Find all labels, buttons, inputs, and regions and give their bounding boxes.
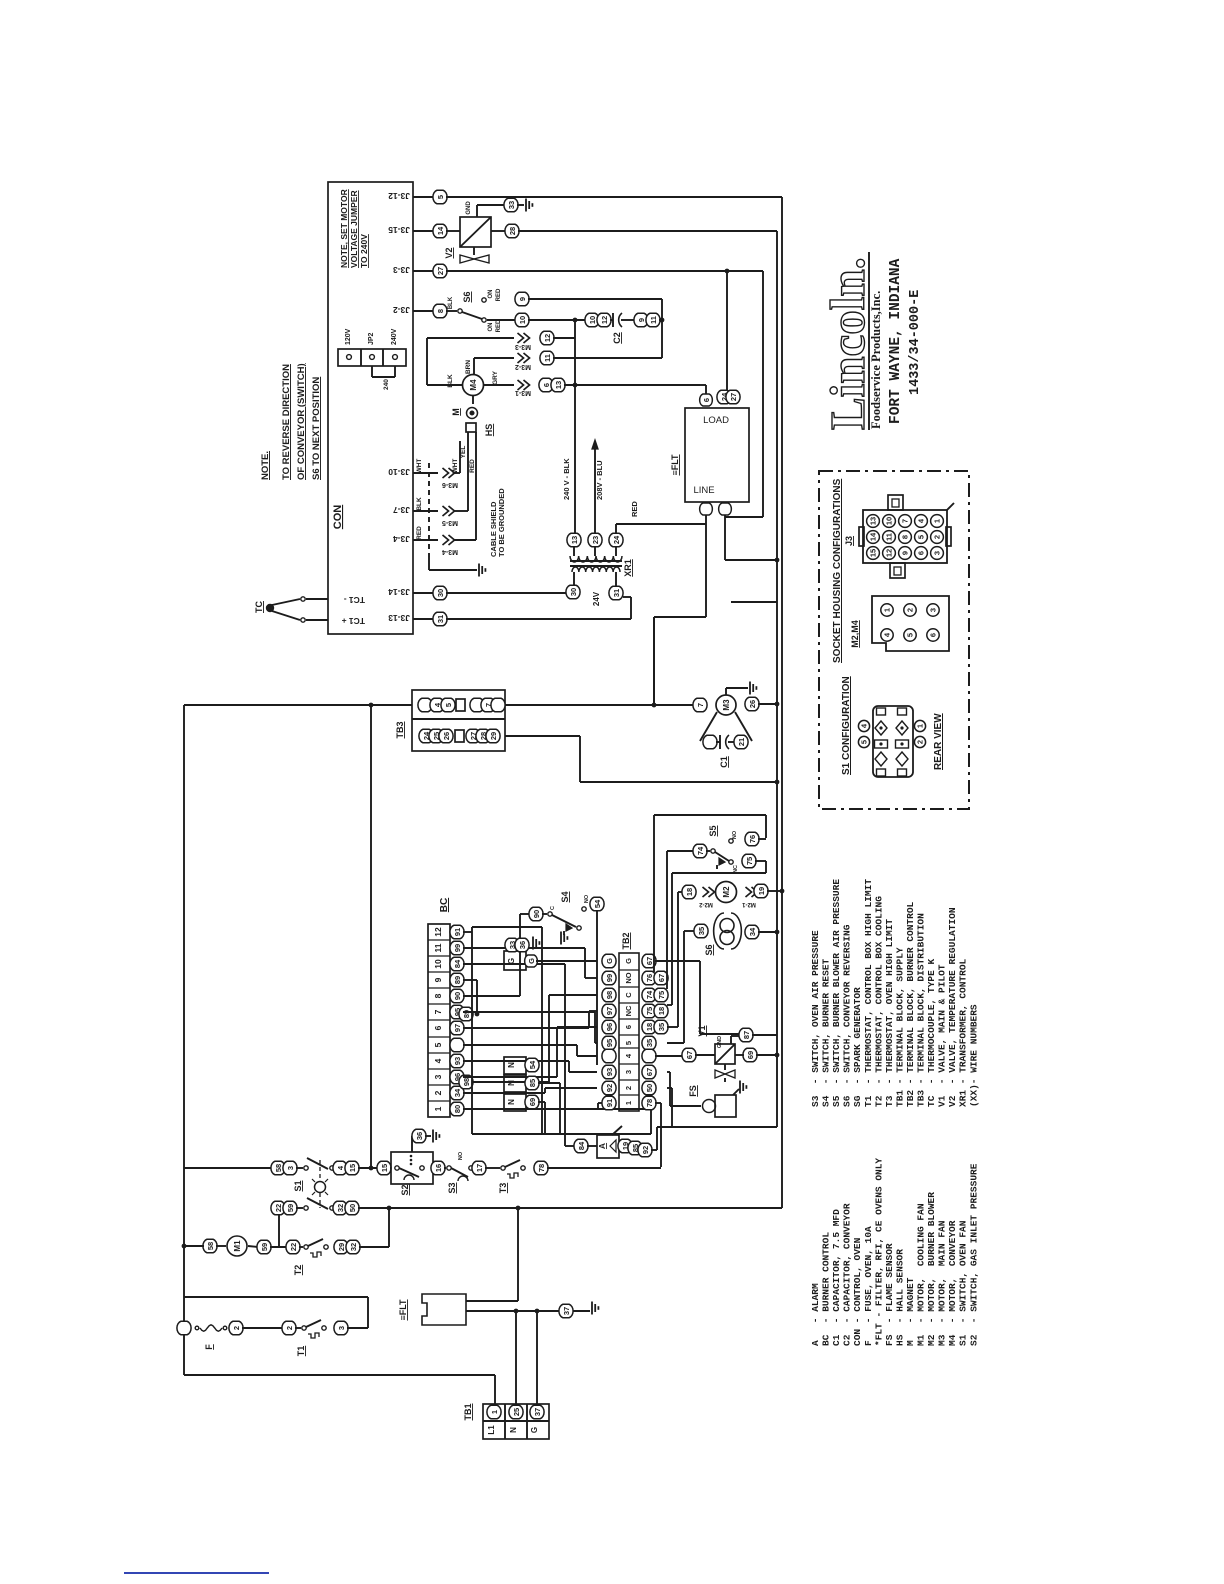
svg-text:RED: RED (496, 288, 502, 301)
svg-text:OF CONVEYOR (SWITCH): OF CONVEYOR (SWITCH) (296, 363, 307, 480)
svg-text:S1: S1 (293, 1180, 303, 1191)
wire RED from CON J3-4 / connector M3-4 (413, 539, 438, 541)
thermostat T2 (control box cooling) (286, 1240, 300, 1254)
svg-text:S3 - SWITCH, OVEN AIR PRESSUR: S3 - SWITCH, OVEN AIR PRESSURE (810, 930, 821, 1107)
svg-text:67: 67 (685, 1051, 694, 1059)
svg-text:NO: NO (624, 972, 633, 983)
svg-text:T3: T3 (498, 1183, 508, 1194)
FLT LOAD pins 6 24 27 (700, 394, 713, 406)
svg-text:12: 12 (543, 334, 552, 342)
wire 59 riser (278, 1214, 280, 1247)
svg-text:M3-1: M3-1 (515, 389, 531, 396)
wire stub to border (731, 601, 777, 603)
svg-text:M2 - MOTOR, BURNER BLOWER: M2 - MOTOR, BURNER BLOWER (926, 1192, 937, 1346)
junction nodes pole-2 rail (387, 1206, 392, 1211)
svg-text:31: 31 (612, 589, 621, 597)
motor M1 (cooling fan) with wire 58 (203, 1239, 217, 1253)
svg-text:Lincoln.: Lincoln. (820, 257, 875, 430)
svg-text:T1 - THERMOSTAT, CONTROL BOX: T1 - THERMOSTAT, CONTROL BOX HIGH LIMIT (863, 879, 874, 1107)
alarm wires 19 85 92 (618, 1139, 632, 1153)
RFI line filter FLT (685, 408, 749, 502)
svg-text:14: 14 (869, 532, 878, 541)
svg-text:11: 11 (885, 533, 894, 541)
wire 2 (229, 1321, 243, 1335)
svg-text:6: 6 (624, 1025, 633, 1029)
junction node M3 feed (653, 617, 655, 705)
wire number 89, junction (459, 1007, 473, 1021)
svg-text:5: 5 (433, 1042, 443, 1047)
motor M2 (burner blower) with connectors M2-2 M2-1 (682, 885, 696, 899)
svg-text:NO: NO (584, 894, 590, 903)
wire bottom rail to TB1 L1 (183, 1334, 185, 1375)
svg-text:N: N (509, 1427, 518, 1433)
svg-text:M - MAGNET: M - MAGNET (905, 1277, 916, 1346)
wire 87 TB2-G to V1 (655, 960, 700, 962)
svg-text:≡FLT: ≡FLT (670, 454, 680, 476)
svg-text:3: 3 (933, 551, 942, 555)
svg-text:18: 18 (645, 1023, 654, 1031)
svg-text:TO REVERSE DIRECTION: TO REVERSE DIRECTION (281, 364, 292, 480)
wire numbers 9 11 (634, 313, 648, 327)
svg-text:N: N (507, 1099, 516, 1105)
svg-text:12: 12 (885, 549, 894, 557)
spark generator G box (504, 951, 526, 970)
svg-text:69: 69 (746, 1051, 755, 1059)
wire FLT LINE to border, junction (724, 515, 726, 560)
wire 76 TB2-NO to S5 (653, 815, 655, 972)
wire 22-59 S1 pole 2 (271, 1207, 273, 1209)
svg-text:10: 10 (518, 316, 527, 324)
wire 240V-BLK riser (574, 385, 576, 534)
svg-text:75: 75 (657, 991, 666, 999)
svg-text:30: 30 (436, 589, 445, 597)
svg-text:22: 22 (274, 1204, 283, 1212)
svg-text:90: 90 (453, 992, 462, 1000)
svg-text:24: 24 (612, 535, 621, 544)
wire 34 to border, junction (745, 925, 759, 939)
cable shield dashed wire and ground (428, 463, 430, 557)
svg-text:XR1 - TRANSFORMER, CONTROL: XR1 - TRANSFORMER, CONTROL (958, 958, 969, 1107)
svg-text:29: 29 (489, 732, 498, 740)
jumper block JP2 (120V/240V) (338, 349, 406, 366)
junction node wire 13 (573, 383, 578, 388)
svg-text:S6: S6 (462, 291, 472, 302)
svg-text:24V: 24V (592, 591, 601, 606)
wire 9 (515, 292, 529, 306)
svg-text:80: 80 (453, 1105, 462, 1113)
svg-text:76: 76 (748, 835, 757, 843)
svg-text:3: 3 (286, 1166, 295, 1170)
junction nodes N and G (514, 1309, 519, 1314)
svg-text:6: 6 (433, 1025, 443, 1030)
sensor wires WHT YEL RED (459, 441, 461, 473)
svg-text:S5 - SWITCH, BURNER BLOWER AI: S5 - SWITCH, BURNER BLOWER AIR PRESSURE (831, 879, 842, 1107)
svg-text:S1 CONFIGURATION: S1 CONFIGURATION (841, 676, 852, 775)
svg-text:58: 58 (274, 1164, 283, 1172)
svg-text:M2-1: M2-1 (742, 901, 756, 907)
svg-text:M1: M1 (233, 1240, 242, 1252)
svg-text:C1 - CAPACITOR, 7.5 MFD: C1 - CAPACITOR, 7.5 MFD (831, 1209, 842, 1346)
svg-text:TB1: TB1 (463, 1403, 473, 1420)
svg-text:75: 75 (745, 857, 754, 865)
svg-text:37: 37 (562, 1307, 571, 1315)
svg-text:2: 2 (933, 535, 942, 539)
wire 50 rail to border (358, 1207, 518, 1209)
svg-text:34: 34 (748, 927, 757, 936)
svg-text:T1: T1 (296, 1346, 306, 1357)
svg-text:97: 97 (453, 1024, 462, 1032)
svg-text:6: 6 (917, 551, 926, 555)
wire 19 to border, junction (754, 884, 768, 898)
svg-text:LOAD: LOAD (703, 415, 729, 426)
svg-text:C: C (624, 992, 633, 998)
wire FLT to pole-2 rail (466, 1300, 518, 1302)
wire 36 with ground (412, 1129, 426, 1143)
svg-text:S2: S2 (400, 1184, 410, 1195)
svg-text:21: 21 (737, 738, 746, 746)
svg-text:J3-12: J3-12 (388, 191, 410, 201)
svg-text:RED: RED (469, 459, 476, 473)
svg-text:67: 67 (657, 974, 666, 982)
svg-text:J3-14: J3-14 (388, 587, 410, 597)
svg-text:15: 15 (869, 549, 878, 557)
wire 74 TB2-C to S5 (666, 851, 668, 989)
junction node left rail (182, 1244, 187, 1249)
svg-text:59: 59 (286, 1204, 295, 1212)
transformer XR1 (control) (570, 556, 622, 562)
wire 24 RED to FLT LINE (615, 524, 617, 534)
wire 3 (334, 1321, 348, 1335)
magnet M (472, 395, 474, 404)
svg-text:C1: C1 (719, 756, 729, 768)
svg-text:S4 - SWITCH, BURNER RESET: S4 - SWITCH, BURNER RESET (821, 958, 832, 1107)
svg-text:WHT: WHT (416, 459, 423, 474)
wire 92 to border (657, 1126, 777, 1128)
svg-text:N: N (507, 1062, 516, 1068)
svg-text:C: C (550, 906, 556, 910)
svg-text:S4: S4 (560, 891, 570, 902)
wire BLK to M4 (426, 338, 428, 385)
svg-text:S6: S6 (704, 944, 714, 955)
wire 11 / connector M3-2 (474, 357, 514, 359)
TB2 second wire numbers (654, 971, 668, 985)
svg-text:GRY: GRY (492, 370, 499, 385)
svg-text:BLK: BLK (448, 296, 454, 309)
svg-text:98: 98 (605, 991, 614, 999)
wire 12 / connector M3-3 (427, 337, 514, 339)
svg-text:S3: S3 (447, 1182, 457, 1193)
svg-text:31: 31 (436, 615, 445, 623)
svg-text:G: G (527, 958, 536, 964)
svg-text:91: 91 (605, 1099, 614, 1107)
svg-text:1: 1 (433, 1106, 443, 1111)
svg-text:V1: V1 (697, 1025, 707, 1036)
wire number 98 (459, 1075, 473, 1089)
capacitor C2 (conveyor) (610, 319, 613, 321)
svg-text:120V: 120V (345, 328, 352, 345)
svg-text:13: 13 (570, 536, 579, 544)
svg-text:8: 8 (901, 535, 910, 539)
wires 29 32 (334, 1240, 348, 1254)
svg-text:11: 11 (543, 354, 552, 362)
svg-text:J3-4: J3-4 (393, 534, 410, 544)
svg-text:CON: CON (332, 505, 344, 530)
wire 27 from CON J3-3 (413, 270, 434, 272)
wire FLT LINE to M3 (705, 515, 707, 617)
svg-text:5: 5 (444, 703, 453, 707)
svg-text:BC: BC (439, 898, 450, 912)
svg-text:12: 12 (600, 316, 609, 324)
svg-text:10: 10 (885, 517, 894, 525)
svg-text:9: 9 (433, 977, 443, 982)
BC wiring mesh to TB2 (463, 931, 472, 933)
thermostat T3 (oven high limit) (501, 1166, 505, 1170)
svg-text:RED: RED (630, 501, 639, 517)
wire TB3 feed (184, 704, 412, 706)
svg-text:G: G (624, 958, 633, 964)
svg-text:50: 50 (645, 1084, 654, 1092)
wires 33 36 with ground (505, 938, 519, 952)
svg-text:3: 3 (433, 1074, 443, 1079)
svg-text:6: 6 (542, 383, 551, 387)
wire riser 240V (574, 320, 576, 384)
svg-text:S5: S5 (708, 825, 718, 836)
svg-text:2: 2 (624, 1086, 633, 1090)
svg-text:74: 74 (645, 990, 654, 999)
svg-text:2: 2 (906, 608, 915, 612)
svg-text:26: 26 (442, 732, 451, 740)
svg-text:1433/34-000-E: 1433/34-000-E (908, 290, 923, 395)
fuse F (oven 10A) (177, 1321, 191, 1335)
svg-text:18: 18 (657, 1007, 666, 1015)
svg-text:11: 11 (433, 943, 443, 952)
svg-text:FORT WAYNE, INDIANA: FORT WAYNE, INDIANA (888, 258, 904, 424)
svg-text:BLK: BLK (416, 497, 423, 511)
svg-text:1: 1 (883, 608, 892, 612)
socket housing configurations dashed box (819, 471, 969, 809)
svg-text:ON: ON (488, 323, 494, 332)
svg-text:16: 16 (434, 1164, 443, 1172)
svg-text:TC1 -: TC1 - (344, 595, 365, 605)
svg-text:2: 2 (232, 1326, 241, 1330)
svg-text:98: 98 (462, 1078, 471, 1086)
svg-text:7: 7 (696, 703, 705, 707)
wire 16 / switch S3 (oven air pressure) (431, 1161, 445, 1175)
svg-text:76: 76 (645, 974, 654, 982)
wire TB3 to M3 (505, 704, 694, 706)
wires to TB1 N and G (515, 1311, 517, 1404)
junction node C2 right (660, 318, 665, 323)
wire 35 TB2-5 to S6 (667, 1042, 684, 1044)
svg-text:JP2: JP2 (368, 332, 375, 345)
wire number 15 (377, 1161, 391, 1175)
svg-text:A - ALARM: A - ALARM (810, 1283, 821, 1346)
svg-text:TB2: TB2 (621, 932, 631, 949)
svg-text:2: 2 (433, 1090, 443, 1095)
svg-text:NOTE.: NOTE. (260, 451, 271, 480)
svg-text:50: 50 (348, 1204, 357, 1212)
svg-text:90: 90 (532, 910, 541, 918)
svg-text:11: 11 (649, 316, 658, 324)
svg-text:NO: NO (732, 830, 738, 839)
svg-text:1: 1 (916, 724, 925, 728)
svg-text:29: 29 (337, 1243, 346, 1251)
wire 27 riser to FLT (726, 271, 728, 390)
svg-text:1: 1 (933, 519, 942, 523)
svg-text:SOCKET HOUSING CONFIGURATIONS: SOCKET HOUSING CONFIGURATIONS (832, 478, 843, 663)
ground at M3 (725, 688, 727, 695)
svg-text:YEL: YEL (460, 446, 467, 459)
svg-text:8: 8 (433, 993, 443, 998)
svg-text:7: 7 (901, 519, 910, 523)
svg-text:22: 22 (289, 1243, 298, 1251)
svg-text:G: G (507, 958, 516, 964)
wire 6-13 to FLT (564, 384, 700, 386)
svg-text:NC: NC (624, 1005, 633, 1016)
wire 78 (534, 1161, 548, 1175)
wire WHT from CON J3-10 / connector M3-6 (413, 472, 438, 474)
svg-text:208V - BLU: 208V - BLU (595, 460, 604, 500)
svg-text:240V: 240V (391, 328, 398, 345)
svg-text:M4: M4 (469, 379, 478, 391)
svg-text:TC: TC (254, 601, 264, 613)
svg-text:7: 7 (433, 1009, 443, 1014)
svg-text:S2 - SWITCH, GAS INLET PRESSU: S2 - SWITCH, GAS INLET PRESSURE (968, 1163, 979, 1346)
motor M4 (conveyor) (463, 375, 484, 396)
svg-text:A: A (597, 1143, 607, 1149)
svg-text:HS: HS (484, 424, 494, 437)
wire 37 neutral/ground (466, 1310, 590, 1312)
svg-text:Foodservice Products,Inc.: Foodservice Products,Inc. (869, 291, 883, 429)
svg-text:5: 5 (917, 535, 926, 539)
wire 50 TB2-2 (667, 1087, 672, 1089)
svg-text:RED: RED (416, 526, 423, 540)
svg-text:V1 - VALVE, MAIN & PILOT: V1 - VALVE, MAIN & PILOT (937, 964, 948, 1107)
svg-text:5: 5 (906, 633, 915, 637)
svg-text:25: 25 (512, 1408, 521, 1416)
svg-text:BC - BURNER CONTROL: BC - BURNER CONTROL (821, 1232, 832, 1346)
svg-text:TO BE GROUNDED: TO BE GROUNDED (497, 488, 506, 557)
svg-text:T2 - THERMOSTAT, CONTROL BOX: T2 - THERMOSTAT, CONTROL BOX COOLING (873, 896, 884, 1107)
svg-text:33: 33 (507, 201, 516, 209)
svg-text:13: 13 (554, 381, 563, 389)
svg-text:T3 - THERMOSTAT, OVEN HIGH LI: T3 - THERMOSTAT, OVEN HIGH LIMIT (884, 919, 895, 1107)
svg-text:M3-4: M3-4 (442, 548, 458, 555)
svg-text:M3 - MOTOR, MAIN FAN: M3 - MOTOR, MAIN FAN (937, 1220, 948, 1346)
svg-text:M2-2: M2-2 (699, 901, 713, 907)
wire numbers 10 12 (585, 313, 599, 327)
wire 14 from CON J3-15 (413, 230, 434, 232)
svg-text:5: 5 (436, 195, 445, 199)
svg-text:J3: J3 (844, 536, 854, 546)
wire 67 TB2-4 to V1 (655, 1055, 683, 1057)
svg-text:35: 35 (697, 927, 706, 935)
wire number 7 (693, 698, 707, 712)
svg-text:75: 75 (645, 1007, 654, 1015)
wire number 35 (694, 924, 708, 938)
svg-text:36: 36 (518, 941, 527, 949)
svg-text:S6 TO NEXT POSITION: S6 TO NEXT POSITION (311, 377, 322, 480)
svg-text:S1 - SWITCH, OVEN FAN: S1 - SWITCH, OVEN FAN (958, 1220, 969, 1346)
wire GRY / connector M3-1 (484, 384, 514, 386)
svg-text:13: 13 (869, 517, 878, 525)
svg-text:TC - THERMOCOUPLE, TYPE K: TC - THERMOCOUPLE, TYPE K (926, 958, 937, 1107)
svg-text:37: 37 (533, 1408, 542, 1416)
svg-text:V2 - VALVE, TEMPERATURE REGUL: V2 - VALVE, TEMPERATURE REGULATION (947, 907, 958, 1107)
svg-text:1: 1 (624, 1101, 633, 1105)
wire 58-3 S1 pole 1 (184, 1167, 272, 1169)
wire 27 riser to FLT LINE (762, 271, 764, 517)
svg-text:58: 58 (206, 1242, 215, 1250)
svg-text:92: 92 (641, 1146, 650, 1154)
svg-text:35: 35 (645, 1039, 654, 1047)
wire 28 from V2 (491, 230, 506, 232)
svg-text:S6 - SWITCH, CONVEYOR REVERSI: S6 - SWITCH, CONVEYOR REVERSING (842, 924, 853, 1107)
wire 78 TB2-1 to T3 (655, 1102, 661, 1104)
wire, outer right border vertical (781, 197, 783, 1208)
svg-text:85: 85 (528, 1079, 537, 1087)
ground at FS (733, 1089, 739, 1095)
svg-text:3: 3 (929, 608, 938, 612)
svg-text:M3-3: M3-3 (515, 343, 531, 350)
svg-text:54: 54 (593, 899, 602, 908)
svg-text:91: 91 (453, 928, 462, 936)
wire 8 from CON J3-2 (413, 310, 434, 312)
junction node wire 10 (573, 318, 578, 323)
switch S2 (gas inlet pressure) (391, 1152, 433, 1184)
wire 208V-BLU riser with arrow (594, 446, 596, 534)
svg-text:*FLT - FILTER, RFI, CE OVENS O: *FLT - FILTER, RFI, CE OVENS ONLY (873, 1158, 884, 1346)
wire 30 from CON J3-14 (413, 592, 434, 594)
wire 31 from CON J3-13 (413, 618, 434, 620)
svg-text:LINE: LINE (693, 485, 714, 496)
svg-text:FS - FLAME SENSOR: FS - FLAME SENSOR (884, 1243, 895, 1346)
svg-text:NO: NO (458, 1151, 464, 1160)
svg-text:NOTE, SET MOTOR: NOTE, SET MOTOR (339, 189, 349, 268)
svg-text:REAR VIEW: REAR VIEW (933, 713, 944, 770)
svg-text:93: 93 (605, 1068, 614, 1076)
S1 mechanical link (319, 1160, 321, 1181)
wire 67 TB2-3 to FS (667, 1071, 670, 1073)
wire 17 (472, 1161, 486, 1175)
wire 18 TB2-6 to M2 (667, 1026, 678, 1028)
svg-text:J3-7: J3-7 (393, 505, 410, 515)
motor M3 (main fan) (716, 695, 736, 715)
wire 6 to FLT (705, 385, 707, 394)
svg-text:23: 23 (591, 536, 600, 544)
svg-text:8: 8 (436, 309, 445, 313)
thermocouple TC (266, 604, 274, 612)
wire 10 (487, 319, 516, 321)
svg-text:J3-10: J3-10 (388, 467, 410, 477)
svg-text:GND: GND (466, 201, 472, 215)
svg-text:FS: FS (688, 1085, 698, 1097)
svg-text:G: G (530, 1427, 539, 1433)
svg-text:4: 4 (624, 1053, 633, 1058)
svg-text:67: 67 (645, 957, 654, 965)
svg-text:BRN: BRN (465, 360, 472, 374)
svg-text:84: 84 (453, 959, 462, 968)
wire G to TB2 (525, 955, 538, 967)
wire number 12 (540, 331, 554, 345)
svg-text:J3-3: J3-3 (393, 265, 410, 275)
svg-text:CON - CONTROL, OVEN: CON - CONTROL, OVEN (852, 1237, 863, 1346)
svg-text:TB3 - TERMINAL BLOCK, DISTRIBU: TB3 - TERMINAL BLOCK, DISTRIBUTION (916, 913, 927, 1107)
valve V2 (temperature regulation) (460, 217, 491, 247)
svg-text:M1 - MOTOR, COOLING FAN: M1 - MOTOR, COOLING FAN (916, 1203, 927, 1346)
svg-text:N: N (507, 1080, 516, 1086)
svg-text:6: 6 (702, 398, 711, 402)
